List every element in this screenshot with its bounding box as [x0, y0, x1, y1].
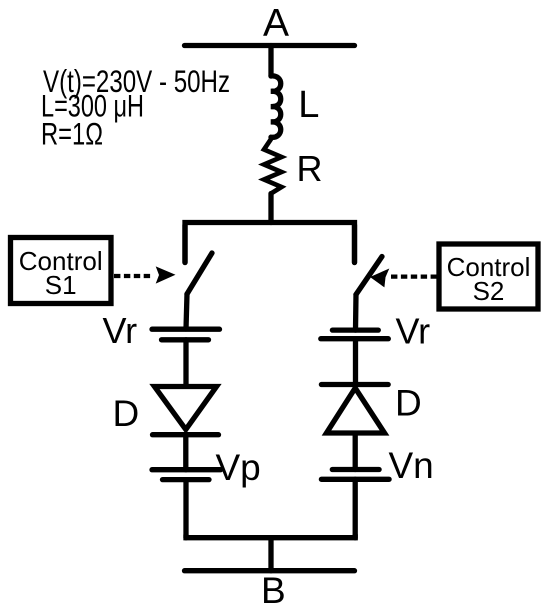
- svg-text:Vr: Vr: [103, 310, 138, 351]
- svg-text:B: B: [261, 570, 286, 611]
- svg-text:S2: S2: [473, 276, 505, 306]
- dashed arrow S2: [370, 269, 437, 288]
- svg-text:Vn: Vn: [389, 445, 434, 486]
- svg-text:L: L: [298, 84, 319, 126]
- inductor L: [271, 76, 281, 137]
- wire Vn to bottom connector: [353, 479, 358, 537]
- top connector wire: [185, 223, 355, 263]
- dashed arrow S1: [114, 266, 176, 283]
- wire diode right to battery Vn: [353, 434, 358, 470]
- bus bar A: [185, 43, 355, 48]
- svg-text:Vp: Vp: [216, 447, 261, 488]
- svg-text:D: D: [395, 383, 422, 424]
- switch S2: [355, 225, 383, 330]
- svg-text:A: A: [263, 2, 289, 45]
- svg-text:Vr: Vr: [396, 310, 431, 351]
- wire battery Vr right to diode: [353, 339, 358, 385]
- battery Vr right: [321, 330, 389, 339]
- svg-text:S1: S1: [45, 270, 77, 300]
- battery Vp: [152, 470, 221, 480]
- battery Vr left: [152, 329, 220, 340]
- wire diode to battery Vp: [183, 435, 188, 470]
- wire Vp to bottom connector: [183, 480, 188, 538]
- resistor R: [264, 137, 282, 193]
- wire A to inductor: [268, 46, 273, 77]
- diode D right: [321, 385, 388, 434]
- svg-text:D: D: [113, 393, 140, 434]
- control box S1: [11, 238, 112, 304]
- bottom connector wire: [186, 535, 355, 538]
- bus bar B: [185, 568, 355, 573]
- wire resistor to junction: [268, 194, 273, 223]
- switch S1: [185, 225, 212, 329]
- wire to B: [268, 538, 273, 571]
- svg-text:R: R: [297, 148, 323, 189]
- diode D left: [153, 387, 219, 435]
- control box S2: [439, 244, 538, 309]
- battery Vn: [321, 470, 389, 480]
- wire battery Vr to diode: [183, 340, 188, 386]
- svg-text:R=1Ω: R=1Ω: [41, 116, 103, 152]
